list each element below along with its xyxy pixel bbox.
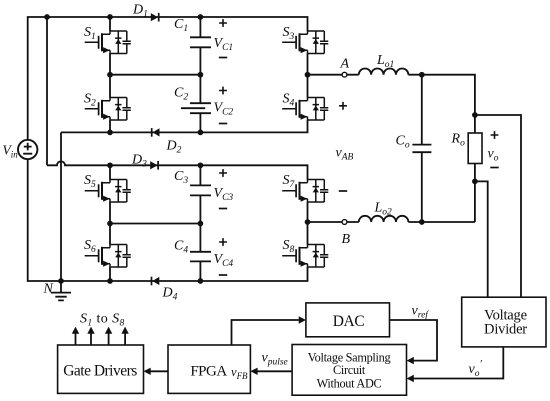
svg-text:Gate Drivers: Gate Drivers xyxy=(63,362,137,379)
svg-text:A: A xyxy=(340,57,350,72)
svg-text:B: B xyxy=(342,232,351,247)
svg-text:S1 to S8: S1 to S8 xyxy=(80,312,125,329)
svg-text:N: N xyxy=(43,282,54,297)
svg-text:DAC: DAC xyxy=(333,313,365,330)
svg-text:Divider: Divider xyxy=(484,322,527,338)
svg-text:Circuit: Circuit xyxy=(333,363,366,377)
svg-text:Without ADC: Without ADC xyxy=(317,377,382,391)
svg-text:FPGA: FPGA xyxy=(190,364,227,380)
